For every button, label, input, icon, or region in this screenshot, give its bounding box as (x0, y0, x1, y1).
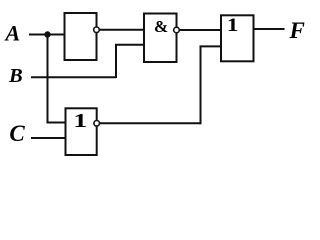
wire: input C to U4 lower input (31, 137, 66, 139)
node: junction dot on A wire (44, 31, 50, 37)
wire: into U3 lower input (200, 45, 222, 47)
wire: input A to inverter U1 (29, 34, 65, 36)
svg-text:&: & (154, 17, 168, 36)
svg-text:F: F (289, 18, 305, 43)
wire: U1 output to U2 upper input (97, 29, 145, 31)
bubble on U4 output (94, 121, 100, 127)
svg-text:A: A (4, 20, 21, 45)
wire: B into AND gate U2 lower input (115, 44, 144, 46)
OR gate U3 (221, 15, 254, 61)
wire: U4 output run right (97, 122, 201, 124)
wire: input B horizontal run (31, 76, 116, 78)
wire: vertical rise to U3 lower input (200, 46, 202, 124)
bubble on U1 output (94, 27, 100, 33)
svg-text:C: C (9, 121, 25, 146)
NOT gate U4 (66, 108, 97, 155)
svg-text:1: 1 (73, 110, 87, 132)
wire: U2 output to OR gate U3 upper input (177, 29, 222, 31)
AND gate U2 (144, 14, 177, 63)
wire: A branch vertical down to NOT gate U4 (47, 35, 49, 123)
wire: U3 output to F (254, 28, 285, 30)
bubble on U2 output (174, 27, 180, 33)
svg-text:B: B (8, 65, 23, 87)
inverter U1 (empty box with output bubble) (65, 13, 97, 60)
wire: B vertical rise (115, 45, 117, 78)
label 1 of U4 (73, 110, 87, 132)
label 1 of U3 (227, 14, 239, 35)
wire: A branch horizontal into U4 upper input (47, 122, 66, 124)
svg-text:1: 1 (227, 14, 239, 35)
